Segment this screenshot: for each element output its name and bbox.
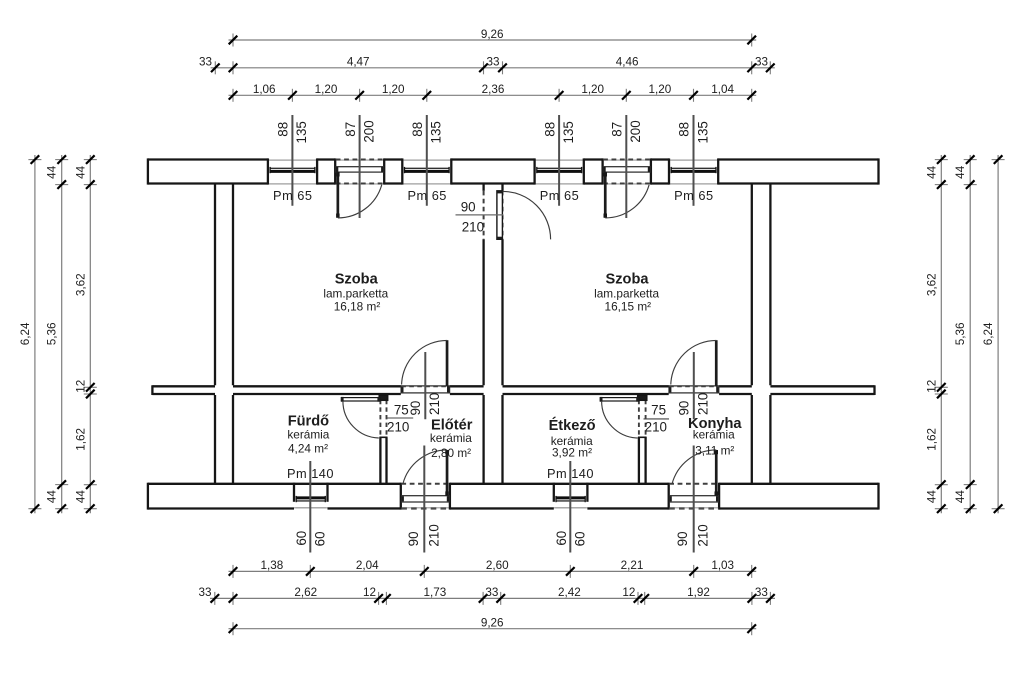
label 75/210 door Etkezo (644, 403, 670, 435)
svg-text:4,47: 4,47 (347, 56, 370, 69)
dimension line left 44/5,36/44 (46, 155, 68, 513)
svg-text:90: 90 (461, 199, 476, 214)
wall: horizontal partition right unit (503, 386, 752, 394)
svg-text:60: 60 (554, 531, 569, 546)
axis line window L2 (426, 115, 428, 206)
dimension line left 6,24 (19, 155, 42, 513)
svg-text:33: 33 (755, 586, 768, 599)
door Furdo (vertical partition) (341, 397, 380, 438)
svg-text:44: 44 (954, 165, 967, 179)
room label Etkezo (549, 417, 596, 460)
wall: bottom exterior band inner edge (148, 483, 879, 485)
svg-text:90: 90 (677, 401, 692, 416)
svg-text:9,26: 9,26 (481, 28, 504, 41)
svg-text:kerámia: kerámia (287, 427, 329, 441)
room label Szoba left (323, 272, 388, 314)
label 90/210 door bottom L (406, 524, 442, 546)
svg-text:1,03: 1,03 (711, 559, 734, 572)
label 88/135 window L2 (410, 121, 444, 143)
entry door right (top wall) (603, 160, 650, 218)
window R1 (top wall) (536, 160, 582, 184)
wall: left party wall (215, 184, 233, 484)
axis line entry door left (359, 115, 361, 218)
svg-text:Szoba: Szoba (335, 272, 379, 288)
svg-text:200: 200 (361, 120, 376, 142)
label 90/210 door bottom R (675, 524, 711, 546)
svg-text:210: 210 (645, 419, 667, 434)
svg-text:2,60: 2,60 (486, 559, 509, 572)
svg-text:88: 88 (677, 122, 692, 137)
svg-text:1,20: 1,20 (649, 83, 672, 96)
svg-text:33: 33 (486, 56, 499, 69)
entry door left (top wall) (336, 160, 384, 218)
svg-text:90: 90 (406, 531, 421, 546)
dimension line right 44/3,62/12/1,62/44 (925, 155, 948, 513)
dimension line right 44/5,36/44 (954, 155, 977, 513)
svg-text:6,24: 6,24 (19, 322, 32, 345)
svg-text:Étkező: Étkező (549, 417, 596, 434)
svg-text:33: 33 (485, 586, 498, 599)
svg-text:210: 210 (427, 393, 442, 415)
svg-text:5,36: 5,36 (954, 323, 967, 346)
svg-text:12: 12 (74, 380, 87, 393)
svg-text:2,62: 2,62 (294, 586, 317, 599)
svg-text:2,42: 2,42 (558, 586, 581, 599)
svg-text:Pm 65: Pm 65 (273, 188, 313, 203)
svg-text:Pm 65: Pm 65 (540, 188, 580, 203)
svg-text:kerámia: kerámia (693, 428, 735, 442)
svg-text:210: 210 (426, 524, 441, 546)
svg-text:1,62: 1,62 (74, 428, 87, 451)
svg-text:1,92: 1,92 (687, 586, 710, 599)
axis line window bottom R (569, 461, 571, 553)
svg-text:1,20: 1,20 (315, 83, 338, 96)
room label Eloter (430, 418, 473, 460)
wall: bottom exterior band outer edge (148, 507, 879, 509)
dimension line bottom 33/2,62/12/1,73/33/2,42/12/1,92/33 (198, 586, 775, 605)
svg-text:88: 88 (410, 122, 425, 137)
label 87/200 door R (610, 120, 644, 142)
svg-text:12: 12 (925, 380, 938, 393)
svg-text:3,62: 3,62 (925, 273, 938, 296)
svg-text:1,20: 1,20 (382, 83, 405, 96)
svg-text:44: 44 (925, 490, 938, 504)
axis line door Szoba-Eloter (424, 352, 426, 419)
dimension line right 6,24 (982, 155, 1005, 513)
axis line window L1 (291, 115, 293, 206)
label 60/60 window bottom R (554, 531, 587, 547)
svg-text:12: 12 (363, 586, 376, 599)
svg-text:lam.parketta: lam.parketta (594, 287, 659, 301)
facade reference line bottom outer (294, 507, 719, 509)
svg-text:75: 75 (651, 403, 666, 418)
window L2 (top wall) (404, 160, 450, 184)
svg-text:88: 88 (276, 122, 291, 137)
label 90/210 door Szoba-Konyha (677, 393, 711, 416)
dimension line bottom 1,38/2,04/2,60/2,21/1,03 (229, 559, 757, 578)
svg-text:Pm 140: Pm 140 (547, 466, 594, 481)
wall: right party wall (752, 184, 771, 484)
svg-text:88: 88 (542, 122, 557, 137)
window R2 (top wall) (671, 160, 717, 184)
label 88/135 window R2 (677, 121, 711, 143)
axis line window R1 (558, 115, 560, 206)
svg-text:1,04: 1,04 (711, 83, 734, 96)
wall: top exterior band outer edge (148, 158, 879, 160)
wall: top band jamb lines (268, 158, 718, 184)
svg-text:44: 44 (46, 165, 59, 179)
label 88/135 window R1 (542, 121, 576, 143)
window bottom L (296, 496, 327, 508)
door Szoba-Konyha (horizontal partition) (669, 340, 719, 393)
svg-text:1,73: 1,73 (424, 586, 447, 599)
axis line entry door right (625, 115, 627, 218)
facade reference line top outer (268, 159, 718, 161)
room label Szoba right (594, 272, 659, 314)
svg-text:210: 210 (387, 419, 409, 434)
svg-text:210: 210 (462, 220, 484, 235)
svg-text:60: 60 (294, 531, 309, 546)
svg-text:9,26: 9,26 (481, 616, 504, 629)
svg-text:2,36: 2,36 (482, 83, 505, 96)
svg-text:44: 44 (954, 490, 967, 504)
wall: top exterior band inner edge (148, 182, 879, 184)
svg-text:3,62: 3,62 (74, 273, 87, 296)
axis line window bottom L (309, 461, 311, 553)
axis line window R2 (693, 115, 695, 206)
door Etkezo (vertical partition) (600, 397, 639, 438)
svg-text:87: 87 (610, 122, 625, 137)
svg-text:135: 135 (429, 121, 444, 143)
svg-text:75: 75 (394, 403, 409, 418)
svg-text:135: 135 (561, 121, 576, 143)
svg-text:90: 90 (408, 401, 423, 416)
svg-text:1,06: 1,06 (253, 83, 276, 96)
label 90/210 door between Szobas (456, 199, 504, 234)
svg-text:87: 87 (343, 122, 358, 137)
wall: bottom band jamb lines (294, 483, 719, 510)
svg-text:44: 44 (74, 490, 87, 504)
svg-text:2,21: 2,21 (621, 559, 644, 572)
wall: right neighbour partition stub (770, 385, 874, 395)
dimension line top 9,26 (229, 28, 757, 47)
svg-text:60: 60 (573, 531, 588, 546)
wall: partition Furdo/Eloter (379, 395, 388, 484)
svg-text:210: 210 (696, 524, 711, 546)
label 90/210 door Szoba-Eloter (408, 393, 442, 416)
svg-text:Szoba: Szoba (606, 272, 650, 288)
wall: partition Etkezo/Konyha (638, 395, 647, 484)
svg-text:kerámia: kerámia (430, 431, 472, 445)
wall: left neighbour partition stub (152, 385, 215, 395)
svg-text:12: 12 (622, 586, 635, 599)
window bottom R (555, 496, 586, 508)
svg-text:2,80 m²: 2,80 m² (431, 446, 471, 460)
dimension line top 33/4,47/33/4,46/33 (199, 56, 775, 75)
svg-text:6,24: 6,24 (982, 322, 995, 345)
svg-text:16,18 m²: 16,18 m² (334, 300, 381, 314)
label 60/60 window bottom L (294, 531, 327, 547)
wall: middle party wall (484, 184, 503, 484)
svg-text:16,15 m²: 16,15 m² (605, 300, 652, 314)
facade reference line top inner (268, 183, 718, 185)
svg-text:44: 44 (46, 490, 59, 504)
svg-text:90: 90 (675, 531, 690, 546)
svg-text:2,04: 2,04 (356, 559, 379, 572)
entry door bottom Eloter (401, 450, 449, 509)
room label Konyha (688, 416, 742, 458)
svg-text:3,92 m²: 3,92 m² (552, 445, 592, 459)
window L1 (top wall) (269, 160, 315, 184)
label 87/200 door L (343, 120, 377, 142)
door Szoba-Eloter (horizontal partition) (401, 340, 450, 393)
svg-text:1,20: 1,20 (581, 83, 604, 96)
svg-text:44: 44 (925, 165, 938, 179)
label 88/135 window L1 (276, 121, 310, 143)
wall: top band end caps (148, 158, 879, 184)
svg-text:1,38: 1,38 (261, 559, 284, 572)
axis line entry door bottom Eloter (423, 446, 425, 553)
svg-text:3,11 m²: 3,11 m² (695, 443, 734, 457)
axis line entry door bottom Konyha (693, 446, 695, 553)
dimension line top 1,06/1,20/1,20/2,36/1,20/1,20/1,04 (229, 83, 757, 102)
svg-text:33: 33 (755, 56, 768, 69)
svg-text:60: 60 (313, 531, 328, 546)
svg-text:210: 210 (696, 393, 711, 415)
svg-text:Pm 65: Pm 65 (407, 188, 447, 203)
svg-text:135: 135 (294, 121, 309, 143)
dimension line bottom 9,26 (229, 616, 757, 635)
svg-text:200: 200 (628, 120, 643, 142)
svg-text:1,62: 1,62 (925, 428, 938, 451)
svg-text:5,36: 5,36 (46, 323, 59, 346)
svg-text:33: 33 (198, 586, 211, 599)
svg-text:Pm 140: Pm 140 (287, 466, 334, 481)
door between Szoba rooms (middle party wall) (497, 191, 551, 240)
wall: horizontal partition left unit (233, 386, 484, 394)
svg-text:33: 33 (199, 56, 212, 69)
svg-text:4,46: 4,46 (616, 56, 639, 69)
svg-text:4,24 m²: 4,24 m² (288, 442, 328, 456)
svg-text:lam.parketta: lam.parketta (323, 287, 388, 301)
wall: bottom band end caps (148, 483, 879, 510)
axis line door Szoba-Konyha (693, 352, 695, 419)
svg-text:Pm 65: Pm 65 (674, 188, 714, 203)
dimension line left 44/3,62/12/1,62/44 (74, 155, 97, 513)
svg-text:44: 44 (74, 165, 87, 179)
label 75/210 door Furdo (387, 403, 413, 435)
svg-text:135: 135 (695, 121, 710, 143)
entry door bottom Konyha (669, 450, 718, 509)
room label Furdo (287, 414, 329, 456)
